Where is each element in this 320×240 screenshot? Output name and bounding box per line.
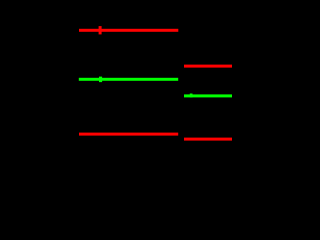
green marker tick on R2 (190, 94, 193, 98)
red marker tick on L1 (99, 26, 102, 34)
red level line R1 (upper right) (184, 65, 232, 68)
red level line R3 (lower right) (184, 138, 232, 141)
red level line L1 (upper left) (79, 29, 178, 32)
green level line L2 (middle left) (79, 78, 178, 81)
green level line R2 (middle right) (184, 94, 232, 97)
red level line L3 (lower left) (79, 133, 178, 136)
green marker tick on L2 (99, 77, 102, 83)
